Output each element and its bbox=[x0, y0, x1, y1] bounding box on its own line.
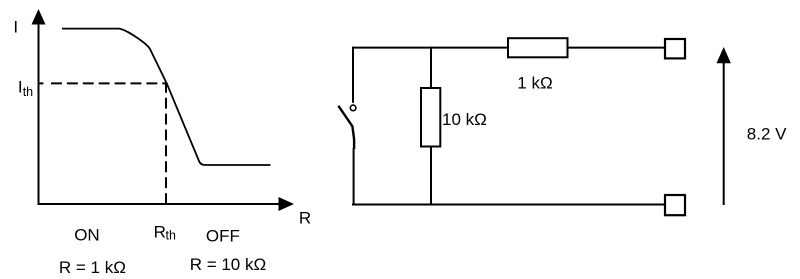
svg-text:8.2 V: 8.2 V bbox=[747, 125, 787, 144]
svg-text:R: R bbox=[154, 223, 166, 242]
svg-text:1 kΩ: 1 kΩ bbox=[517, 74, 552, 93]
svg-text:OFF: OFF bbox=[206, 227, 240, 246]
svg-text:th: th bbox=[23, 85, 33, 99]
svg-text:R = 10 kΩ: R = 10 kΩ bbox=[190, 255, 267, 274]
svg-text:10 kΩ: 10 kΩ bbox=[442, 110, 487, 129]
svg-text:th: th bbox=[166, 228, 176, 242]
svg-text:ON: ON bbox=[74, 225, 100, 244]
svg-text:I: I bbox=[13, 17, 18, 36]
svg-text:R: R bbox=[299, 208, 311, 227]
svg-text:R = 1 kΩ: R = 1 kΩ bbox=[59, 258, 126, 277]
